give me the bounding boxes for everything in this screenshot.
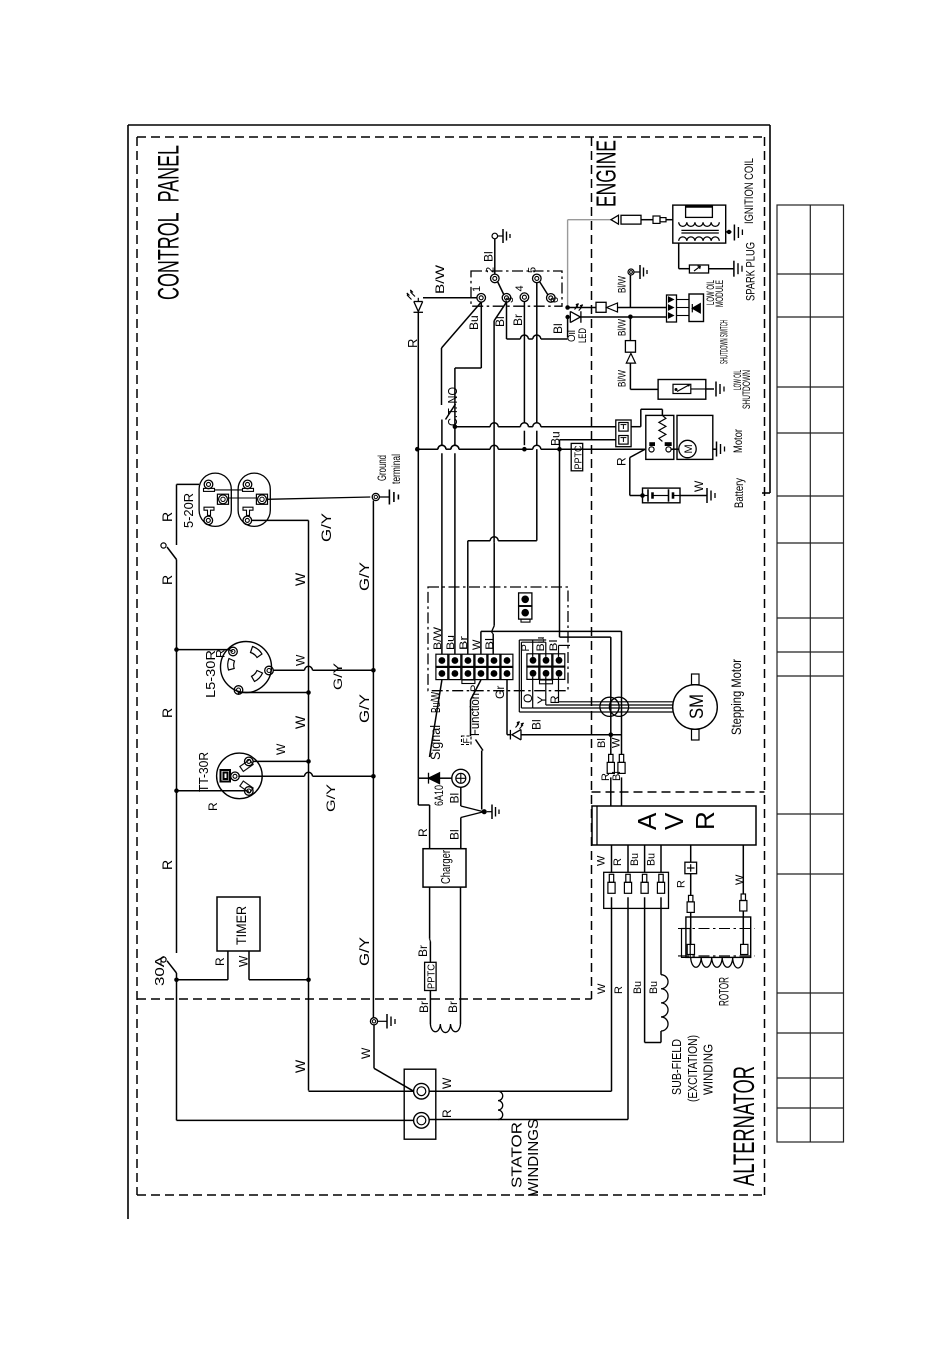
AVR box [592, 806, 756, 845]
svg-text:Bu: Bu [646, 853, 658, 866]
wire stepper bundle 2 [545, 677, 547, 705]
svg-text:W: W [292, 1059, 308, 1073]
stepping motor SM [673, 685, 718, 730]
svg-text:Y: Y [535, 696, 549, 704]
svg-text:SHUTDOWN: SHUTDOWN [741, 370, 753, 409]
spark gap arrow [611, 215, 619, 224]
dashed divider ENGINE / ALTERNATOR [592, 791, 765, 793]
svg-text:6: 6 [549, 297, 561, 303]
svg-text:Motor: Motor [731, 429, 745, 453]
svg-text:Br: Br [511, 314, 525, 326]
svg-text:R: R [676, 880, 688, 888]
svg-text:Bu: Bu [648, 981, 660, 994]
wire to AVR (Bl) [621, 631, 623, 754]
svg-text:W: W [237, 955, 251, 967]
svg-text:R: R [613, 986, 625, 994]
wire col1 (CT contact to connector) [441, 420, 443, 446]
svg-text:Bl: Bl [530, 719, 544, 730]
2-pin starter connector [616, 420, 631, 447]
CT NO switch blade [446, 404, 456, 420]
stator output terminal block [404, 1069, 436, 1139]
wire Gr (col6 to lamp) [506, 680, 508, 735]
junction CT contact [453, 424, 458, 429]
LOW OIL SHUTDOWN switch box [630, 388, 658, 390]
wire R bus to TT-30R [177, 790, 245, 792]
AVR lead W (rotor) [742, 845, 744, 894]
battery BT1 [643, 488, 681, 503]
svg-text:Battery: Battery [732, 478, 746, 508]
svg-text:R: R [159, 512, 175, 522]
svg-text:Signal: Signal [427, 725, 443, 760]
svg-text:Bl: Bl [596, 738, 608, 748]
svg-text:W: W [692, 480, 706, 492]
svg-text:Stepping Motor: Stepping Motor [728, 659, 744, 735]
4-way bullet connector box [604, 872, 669, 908]
wire TT-30R ground to G/Y bus [238, 775, 304, 777]
wire R bus to duplex outlet [177, 483, 200, 485]
svg-text:R: R [206, 802, 220, 811]
alternator lead Bu (left) [644, 897, 646, 1042]
sub-field excitation winding [661, 975, 668, 1031]
wire Bl/W branch (row2 down to shutdown) [629, 317, 631, 341]
svg-text:CONTROL PANEL: CONTROL PANEL [153, 145, 186, 300]
svg-text:W: W [596, 855, 608, 866]
svg-text:Bl: Bl [493, 316, 507, 327]
battery ground [680, 495, 707, 497]
wire lamp to stepper feed [521, 734, 622, 736]
svg-text:SUB-FIELD: SUB-FIELD [669, 1039, 684, 1095]
svg-text:B/W: B/W [432, 626, 444, 650]
connector housing (dash-dot box) [428, 587, 568, 691]
svg-text:Bu/W: Bu/W [428, 692, 443, 713]
starter motor M [677, 415, 713, 459]
timer lead R [227, 951, 229, 980]
svg-text:STATOR: STATOR [509, 1122, 526, 1188]
R bus wire (left vertical) [176, 484, 178, 545]
plug connector [653, 216, 660, 223]
inline connector + diode (vertical) [625, 341, 635, 353]
Charger box [423, 849, 466, 887]
svg-text:M: M [683, 444, 695, 453]
wire terminal 1 Bu jog to col2 [480, 302, 482, 368]
junction Bu branch [557, 447, 562, 452]
svg-text:Function: Function [467, 693, 482, 736]
receptacle TT-30R [217, 753, 263, 799]
wire button to stop switch [460, 787, 462, 806]
3-pin connector (low oil module) [667, 295, 677, 322]
stop switch ground [487, 811, 492, 813]
charger lead Br (right) [460, 887, 462, 1024]
svg-text:Bl: Bl [448, 829, 462, 840]
svg-text:Bu: Bu [629, 853, 641, 866]
duplex receptacle 5-20R (outlet B) [238, 473, 270, 526]
shutdown switch ground [715, 382, 717, 397]
bullet connector [609, 754, 613, 762]
svg-text:6A10: 6A10 [432, 785, 446, 806]
stator winding [429, 1090, 611, 1092]
sheet border (partial solid frame) [128, 124, 770, 126]
svg-text:R: R [440, 1109, 454, 1118]
wire L5-30R W to W bus [238, 693, 240, 695]
wire relay coil feed [631, 426, 641, 428]
svg-text:W: W [274, 743, 288, 755]
svg-text:R: R [405, 339, 420, 348]
switch blade 5-6 [540, 282, 549, 296]
svg-text:WINDING: WINDING [701, 1044, 716, 1095]
svg-text:R: R [690, 811, 720, 830]
svg-text:Bu: Bu [445, 635, 457, 650]
title block table (empty revision table) [777, 205, 844, 1142]
breaker 30A (on R bus) [161, 957, 166, 962]
svg-text:A: A [632, 812, 662, 830]
wire starter-signal (contact to engine pin1) [455, 426, 490, 428]
stop switch blades [461, 806, 484, 812]
function switch wire (col4 down) [471, 680, 481, 700]
svg-text:SHUTDOWN SWITCH: SHUTDOWN SWITCH [719, 320, 731, 364]
starter relay K1 [646, 415, 674, 459]
push button (start) [452, 769, 470, 787]
charge coil winding [430, 1024, 460, 1033]
svg-text:G/Y: G/Y [356, 936, 372, 966]
svg-text:TIMER: TIMER [233, 906, 249, 945]
lamp LED (panel, lower) [510, 730, 521, 740]
wire W bus to stud [309, 1090, 414, 1092]
bullet connector [619, 754, 623, 762]
svg-text:PPTC: PPTC [574, 446, 585, 470]
G/Y bus wire [372, 501, 374, 1018]
wire stepper bundle 3 [532, 677, 534, 708]
wire L5-30R ground to G/Y bus [273, 669, 304, 671]
wire kill row to col6 feed [567, 317, 569, 338]
svg-text:W: W [292, 572, 308, 586]
svg-text:IGNITION COIL: IGNITION COIL [742, 158, 756, 224]
svg-text:Bu: Bu [467, 315, 481, 330]
svg-text:Bl/W: Bl/W [617, 276, 629, 293]
wire routing loop (outer) [519, 639, 546, 641]
wire loop circles (harness coil) [600, 697, 619, 716]
svg-text:ROTOR: ROTOR [716, 977, 732, 1006]
AVR leads W R Bu Bu [611, 845, 613, 872]
timer lead W [248, 951, 250, 980]
wire Bl to charger [460, 818, 462, 849]
function switch F [462, 736, 472, 745]
ground terminal (circle + ground) [372, 493, 379, 500]
svg-text:W: W [596, 983, 608, 994]
wire TT-30R W to W bus [253, 760, 309, 762]
svg-text:C.T. NO: C.T. NO [445, 387, 460, 426]
PPTC fuse (charger) [425, 962, 437, 990]
svg-text:W: W [292, 715, 308, 729]
stator ground bond [370, 1018, 377, 1025]
svg-text:Br: Br [446, 1001, 460, 1013]
wire terminal 2 to ground [494, 239, 496, 274]
switch blade 2-3 [498, 282, 505, 296]
svg-text:G/Y: G/Y [318, 512, 334, 542]
svg-text:W: W [294, 654, 308, 666]
wire conn2 col3 top [558, 645, 560, 657]
svg-text:Bl/W: Bl/W [617, 370, 629, 387]
terminal 1 [477, 294, 486, 303]
twist-lock receptacle L5-30R [221, 642, 272, 693]
svg-text:R: R [612, 858, 624, 866]
svg-text:TT-30R: TT-30R [196, 752, 211, 792]
rotor block [686, 917, 751, 957]
wire to AVR (R) [610, 637, 612, 754]
svg-text:Bl/W: Bl/W [617, 319, 629, 336]
svg-text:R: R [213, 957, 227, 966]
brush (right) [741, 944, 748, 954]
wire R relay to battery [630, 449, 645, 457]
alternator lead R [627, 897, 629, 1119]
AVR lead R (rotor) [690, 845, 692, 862]
svg-text:ALTERNATOR: ALTERNATOR [728, 1066, 761, 1186]
wire terminal 1 to CT switch (col1 B/W) [442, 302, 482, 348]
inline connector + diode (row1) [596, 302, 606, 312]
wire kill line terminal 3 to engine [506, 302, 508, 339]
motor ground [713, 448, 717, 450]
svg-text:G/Y: G/Y [331, 663, 345, 690]
svg-text:SPARK PLUG: SPARK PLUG [744, 242, 758, 301]
stud W [414, 1083, 430, 1099]
wire oil module row 1 [629, 275, 631, 307]
svg-text:1: 1 [471, 286, 483, 292]
terminal 6 [547, 294, 556, 303]
outer dashed enclosure [137, 136, 765, 138]
charger PPTC lead [429, 991, 431, 1025]
svg-text:R: R [159, 860, 175, 870]
svg-text:W: W [440, 1077, 454, 1089]
bullet connector [689, 895, 693, 902]
spark plug [689, 265, 708, 273]
terminal 2 [491, 274, 500, 283]
connector 2 block (3x2) [527, 654, 539, 666]
neutral strap wire to ground terminal [229, 497, 257, 499]
svg-text:Gr: Gr [493, 686, 507, 699]
switch box (dash-dot, terminals 1-6) [471, 271, 562, 306]
wire R bus to timer [174, 978, 179, 983]
wire W jumper (col4 row) [480, 631, 482, 654]
panel breaker (on R bus) [161, 543, 166, 548]
dashed divider CONTROL PANEL / ENGINE [591, 137, 593, 999]
svg-text:30A: 30A [152, 956, 167, 986]
svg-text:R: R [214, 649, 228, 658]
junction oil wire [628, 315, 633, 320]
svg-text:G/Y: G/Y [324, 784, 338, 812]
svg-text:MODULE: MODULE [714, 280, 726, 307]
dashed divider CONTROL PANEL / ALTERNATOR [137, 998, 592, 1000]
svg-text:Br: Br [458, 636, 470, 650]
junction [609, 732, 614, 737]
svg-text:W: W [611, 737, 623, 748]
wire timer W to W bus [249, 979, 309, 981]
wire routing loop (inner) [521, 641, 545, 643]
svg-text:Bl: Bl [611, 771, 623, 781]
ignition coil U1 [673, 205, 726, 243]
svg-text:(EXCITATION): (EXCITATION) [685, 1035, 700, 1102]
svg-text:WINDINGS: WINDINGS [525, 1119, 542, 1196]
fuse holder [685, 862, 697, 874]
svg-text:Bu: Bu [632, 981, 644, 994]
wire R to charger [417, 778, 419, 805]
12-pin connector block [436, 654, 448, 666]
brush (left) [687, 944, 694, 954]
2-pin connector (top) [519, 593, 532, 606]
svg-text:5-20R: 5-20R [181, 493, 196, 528]
wire Bl (down to AVR feed) [559, 449, 561, 637]
svg-text:Br: Br [417, 1001, 431, 1013]
svg-text:5: 5 [527, 267, 539, 273]
junction Br [522, 447, 527, 452]
duplex receptacle 5-20R (outlet A) [199, 473, 231, 526]
terminal 4 [520, 293, 529, 302]
wire conn2 col2 top [545, 642, 547, 657]
diode 6A10 [429, 773, 440, 784]
wire stepper bundle 1 [558, 677, 560, 702]
svg-text:Bu: Bu [549, 431, 563, 446]
svg-text:G/Y: G/Y [356, 561, 372, 591]
wire relay to motor [671, 448, 679, 450]
terminal 3 [502, 294, 511, 303]
svg-text:LED: LED [577, 328, 589, 343]
svg-text:4: 4 [514, 285, 526, 291]
svg-text:R: R [159, 575, 175, 585]
svg-text:V: V [659, 812, 689, 830]
wire conn2 col1 top stub [532, 640, 534, 657]
wire terminal 4 to junction (Br) [523, 302, 525, 423]
wire R bus to stud [177, 1119, 414, 1121]
oil sensor ground (top) [628, 269, 634, 275]
wire R (lamp to diode junction) [417, 312, 419, 778]
svg-text:R: R [416, 828, 430, 837]
svg-text:Bl: Bl [482, 251, 496, 262]
svg-text:W: W [734, 874, 746, 885]
stud R [414, 1113, 430, 1129]
TIMER box [217, 897, 260, 951]
coil primary ground [726, 231, 732, 233]
W bus wire [308, 520, 310, 1090]
wire main relay feed (R to battery relay) [417, 448, 438, 450]
LOW OIL MODULE box [689, 294, 704, 322]
rotor field winding [691, 957, 744, 968]
svg-text:Br: Br [416, 945, 430, 957]
tab link between outlets [215, 489, 243, 491]
charger lead Br (left) [429, 887, 431, 939]
noise suppressor (resistor) [621, 215, 641, 224]
svg-text:ENGINE: ENGINE [591, 140, 622, 207]
terminal 5 [533, 274, 542, 283]
bullet connector [741, 894, 745, 901]
PPTC fuse (engine feed) [571, 443, 583, 470]
wire col5 with jog [493, 543, 495, 626]
svg-text:SM: SM [687, 694, 708, 719]
svg-text:B/W: B/W [433, 264, 447, 294]
svg-text:Bl: Bl [448, 793, 462, 804]
junction R/relay wire [415, 447, 420, 452]
svg-text:terminal: terminal [389, 454, 403, 484]
coil secondary to spark plug [678, 243, 680, 269]
alternator lead Bu (right) [660, 897, 662, 974]
wire terminal 5 to col3 [536, 283, 538, 423]
svg-text:Charger: Charger [438, 850, 453, 884]
svg-text:PPTC: PPTC [427, 964, 438, 989]
svg-text:Bl: Bl [551, 323, 565, 334]
wire terminal 3 to col5 (Bl) [494, 302, 506, 321]
wire W from outlet B to W bus [252, 519, 309, 521]
function switch blade [476, 740, 484, 751]
wire function to stop contact [481, 751, 483, 810]
signal wire (col1 down) [430, 680, 442, 757]
svg-text:R: R [159, 708, 175, 718]
svg-text:W: W [359, 1047, 373, 1059]
svg-text:Bl: Bl [484, 638, 496, 650]
svg-text:Ground: Ground [375, 455, 389, 481]
wire R bus to L5-30R [177, 649, 229, 651]
svg-text:G/Y: G/Y [356, 693, 372, 723]
spark plug ground [733, 261, 735, 277]
lamp LED (panel pilot light, top) [423, 297, 477, 299]
alternator lead W [611, 897, 613, 1091]
svg-text:F: F [462, 738, 472, 744]
ignition kill wire (grey) [567, 220, 569, 308]
wire Bu branch to engine pin2 [559, 440, 561, 449]
svg-text:R: R [615, 457, 629, 466]
wire oil module row 2 (Oil LED) [565, 315, 569, 319]
svg-text:R: R [548, 695, 562, 704]
